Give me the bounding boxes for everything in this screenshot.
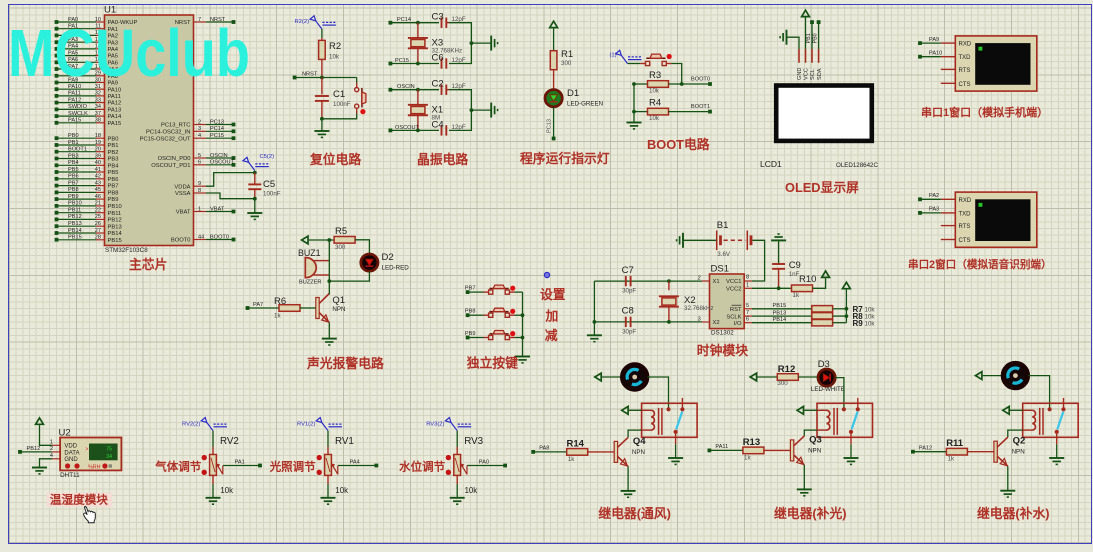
motor M1: [622, 364, 647, 389]
wire relay 1 coil to Q4 collector: [628, 430, 642, 437]
svg-text:GND: GND: [797, 68, 803, 80]
svg-text:TXD: TXD: [959, 211, 972, 217]
ground (RV1): [321, 498, 336, 504]
MCUclub watermark: [8, 16, 250, 91]
svg-text:PB0: PB0: [108, 136, 119, 142]
wire OLED VCC pin: [805, 17, 807, 62]
svg-text:LED-GREEN: LED-GREEN: [567, 100, 603, 107]
svg-text:10k: 10k: [220, 486, 233, 495]
battery B1 3.6V: [683, 220, 751, 258]
svg-text:RV2(2): RV2(2): [182, 422, 200, 428]
pushbutton (key PB9): [484, 331, 516, 340]
chip pin PA2 (pin 12, net PA2): [55, 30, 118, 39]
resistor R9 10k: [812, 319, 876, 328]
svg-text:加: 加: [545, 309, 559, 324]
svg-text:41: 41: [95, 167, 101, 173]
wire PB12 to DHT11 DATA: [20, 451, 60, 453]
svg-text:44: 44: [198, 234, 204, 240]
svg-text:BOOT电路: BOOT电路: [647, 137, 710, 152]
svg-text:Q3: Q3: [809, 434, 822, 445]
capacitor C6 12pF: [432, 53, 466, 69]
capacitor C4 12pF: [432, 119, 466, 135]
label 晶振电路: [417, 152, 468, 167]
svg-text:300: 300: [335, 244, 346, 251]
power symbol (motor 1, rotated left): [595, 373, 601, 381]
terminal PA4: [375, 464, 379, 468]
svg-text:PA11: PA11: [108, 94, 121, 100]
svg-text:VCC2: VCC2: [726, 287, 741, 293]
svg-text:19: 19: [95, 140, 101, 146]
resistor R6 1k: [248, 296, 316, 320]
svg-text:PB10: PB10: [68, 201, 82, 207]
svg-text:VSSA: VSSA: [175, 191, 191, 197]
svg-text:PB6: PB6: [68, 174, 79, 180]
svg-text:R12: R12: [778, 364, 795, 375]
svg-text:PB9: PB9: [108, 197, 119, 203]
terminal BOOT1: [691, 104, 712, 114]
label 程序运行指示灯: [520, 151, 610, 166]
wire C2 to rail: [449, 90, 471, 110]
label 独立按键: [467, 356, 518, 371]
chip pin PB13 (pin 26, net PB13): [55, 221, 122, 230]
resistor R12 300: [757, 364, 798, 387]
svg-text:VBAT: VBAT: [210, 206, 225, 212]
svg-text:OSCIN_PD0: OSCIN_PD0: [158, 156, 191, 162]
svg-text:PA14: PA14: [108, 114, 123, 120]
wire power to motor 1: [602, 376, 622, 378]
svg-text:MCUclub: MCUclub: [8, 16, 250, 91]
svg-text:BOOT1: BOOT1: [68, 147, 87, 153]
terminal PA10: [918, 51, 942, 59]
svg-text:27: 27: [95, 228, 101, 234]
chip pin PA15 (pin 38, net PA15): [55, 118, 122, 127]
svg-text:5: 5: [198, 153, 201, 159]
chip pin PA12 (pin 33, net PA12): [55, 97, 122, 106]
svg-text:SDA: SDA: [817, 68, 823, 80]
DHT11 pin numbers: [50, 439, 53, 459]
svg-text:32.768kHz: 32.768kHz: [684, 305, 714, 312]
svg-text:U1: U1: [104, 5, 116, 16]
wire OSCOUT net: [390, 129, 439, 133]
chip pin PB8 (pin 45, net PB8): [55, 187, 119, 196]
svg-text:PA1: PA1: [235, 459, 245, 465]
wire C3 to rail: [449, 23, 471, 43]
svg-text:PB7: PB7: [108, 184, 119, 190]
svg-text:串口2窗口（模拟语音识别端）: 串口2窗口（模拟语音识别端）: [908, 258, 1052, 271]
ground (keys): [515, 357, 530, 363]
chip pin PA9 (pin 30, net PA9): [55, 77, 118, 86]
svg-text:PB4: PB4: [68, 160, 79, 166]
chip pin PA10 (pin 31, net PA10): [55, 84, 122, 93]
svg-text:PB7: PB7: [465, 286, 476, 292]
svg-text:减: 减: [545, 328, 558, 343]
chip pin PA8 (pin 29, net PA8): [55, 71, 118, 80]
chip pin PB0 (pin 18, net PB0): [55, 133, 119, 142]
svg-text:OLED128642C: OLED128642C: [836, 162, 878, 169]
svg-text:C5(2): C5(2): [260, 154, 275, 160]
capacitor C3 12pF: [432, 12, 466, 28]
wiper of RV1: [331, 463, 338, 474]
chip pin PA4 (pin 14, net PA4): [55, 44, 119, 53]
wire R3-R4 rail: [632, 82, 636, 113]
svg-text:%RH: %RH: [88, 464, 101, 470]
svg-text:PB10: PB10: [108, 204, 122, 210]
svg-text:VCC: VCC: [804, 68, 810, 80]
capacitor C2 12pF: [432, 79, 466, 95]
svg-text:PA11: PA11: [715, 444, 728, 450]
wire PB8 to key: [468, 314, 484, 316]
chip U1 STM32F103C8 body: [104, 5, 194, 255]
svg-text:CTS: CTS: [959, 238, 971, 244]
svg-text:10k: 10k: [335, 486, 348, 495]
svg-text:B1: B1: [717, 220, 729, 231]
svg-text:SCLK: SCLK: [726, 314, 741, 320]
svg-text:NPN: NPN: [632, 449, 645, 456]
svg-text:PC15: PC15: [210, 133, 224, 139]
wire rail to ground (BOOT): [633, 112, 635, 123]
chip pin PA1 (pin 11, net PA1): [55, 24, 118, 33]
svg-text:串口1窗口（模拟手机端）: 串口1窗口（模拟手机端）: [921, 105, 1048, 119]
ground (Q4 emitter): [621, 491, 636, 497]
svg-text:PA7: PA7: [253, 302, 263, 308]
svg-text:37: 37: [95, 111, 101, 117]
chip pin PB10 (pin 21, net PB10): [55, 201, 122, 210]
svg-text:PB8: PB8: [108, 191, 119, 197]
svg-text:PB15: PB15: [108, 238, 122, 244]
wire power to relay 1 coil: [629, 409, 642, 411]
chip pin PB7 (pin 43, net PB7): [55, 180, 119, 189]
wire motor 1 to relay contact: [647, 377, 668, 409]
svg-text:R9: R9: [853, 319, 864, 328]
chip pin PB12 (pin 25, net PB12): [55, 214, 122, 223]
wire NRST node: [295, 76, 357, 80]
terminal PC15: [389, 58, 410, 65]
svg-text:RV1: RV1: [335, 436, 354, 447]
svg-text:R4: R4: [649, 98, 661, 109]
svg-text:D2: D2: [382, 252, 394, 263]
ground (BOOT): [627, 123, 642, 129]
capacitor C8 30pF: [622, 306, 637, 336]
chip pin PB2 (pin 20, net BOOT1): [55, 147, 119, 156]
terminal PB8: [465, 309, 476, 317]
chip pin PA0-WKUP (pin 10, net PA0): [55, 17, 138, 26]
resistor R1 300: [550, 28, 573, 89]
svg-text:DATA: DATA: [64, 450, 79, 456]
virtual terminal body (PA9/PA10): [941, 36, 1037, 91]
label 减: [545, 328, 558, 343]
svg-text:独立按键: 独立按键: [467, 356, 518, 371]
wire RV2 to ground: [212, 484, 214, 498]
transistor Q1 NPN: [316, 294, 346, 323]
svg-text:4: 4: [198, 133, 201, 139]
wire rail to PC15: [449, 41, 473, 63]
svg-text:R2(2): R2(2): [295, 19, 310, 25]
relay RL3: [1023, 398, 1078, 437]
node BOOT0 junction: [680, 82, 708, 86]
label 主芯片: [129, 257, 167, 272]
svg-text:28: 28: [95, 235, 101, 241]
svg-text:SWCLK: SWCLK: [68, 111, 88, 117]
hand cursor: [84, 506, 96, 522]
ground (RV2): [206, 498, 221, 504]
svg-text:SWDIO: SWDIO: [68, 104, 88, 110]
wire relay 3 coil to Q2 collector: [1008, 430, 1023, 437]
transistor Q2 NPN: [994, 436, 1025, 467]
svg-text:VBAT: VBAT: [176, 210, 191, 216]
wire C1 to ground: [321, 119, 323, 131]
svg-text:RV3(2): RV3(2): [426, 422, 444, 428]
svg-text:1k: 1k: [744, 454, 751, 461]
svg-text:3: 3: [198, 126, 201, 132]
svg-text:10k: 10k: [465, 486, 478, 495]
svg-text:10k: 10k: [865, 321, 876, 328]
svg-text:NPN: NPN: [332, 306, 345, 313]
chip pin PA13 (pin 34, net SWDIO): [55, 104, 122, 113]
svg-text:RV1(2): RV1(2): [297, 422, 315, 428]
wire relay 1 switch to ground: [675, 434, 677, 458]
ground (reset): [314, 131, 329, 137]
power symbol (OLED VCC): [802, 10, 810, 16]
svg-text:300: 300: [777, 380, 788, 387]
resistor R10 1k: [792, 274, 817, 299]
pushbutton (key PB7): [484, 285, 516, 294]
wire OSCIN net: [390, 88, 439, 92]
power symbol (DHT11): [36, 418, 44, 424]
svg-text:42: 42: [95, 174, 101, 180]
power symbol (relay 1 coil, rotated left): [622, 406, 628, 414]
wire wiper to PA0: [467, 459, 505, 465]
svg-text:PA3: PA3: [929, 207, 939, 213]
wire PB9 to key: [468, 337, 484, 339]
svg-text:300: 300: [561, 60, 572, 67]
chip pin PA6 (pin 16, net PA6): [55, 57, 118, 66]
svg-text:PB9: PB9: [465, 331, 476, 337]
svg-text:PA15: PA15: [68, 118, 81, 124]
capacitor C7 30pF: [622, 265, 637, 295]
svg-text:PB5: PB5: [68, 167, 79, 173]
power symbol (D1): [550, 21, 558, 27]
wire D3 to relay contact: [835, 378, 844, 410]
svg-text:U2: U2: [59, 428, 71, 439]
svg-text:10k: 10k: [649, 115, 660, 122]
label 时钟模块: [697, 343, 748, 358]
svg-text:2: 2: [198, 119, 201, 125]
resistor R7 10k: [812, 305, 876, 314]
svg-text:1nF: 1nF: [789, 271, 800, 278]
wire D2 to collector node: [329, 271, 369, 281]
wire keys rail: [521, 292, 525, 356]
wire Q2 emitter to ground: [1007, 466, 1009, 491]
relay RL2: [817, 398, 873, 437]
svg-text:D1: D1: [567, 88, 579, 99]
svg-text:PA13: PA13: [108, 108, 122, 114]
wire PB7 to key: [468, 291, 484, 293]
svg-text:38: 38: [95, 118, 101, 124]
wire relay 3 switch to ground: [1056, 434, 1058, 458]
svg-text:RTS: RTS: [959, 224, 971, 230]
label 继电器(补水): [977, 506, 1050, 521]
pushbutton (BOOT): [628, 54, 672, 66]
svg-text:75: 75: [106, 447, 112, 453]
svg-text:30pF: 30pF: [622, 288, 636, 295]
svg-text:气体调节: 气体调节: [154, 460, 201, 474]
terminal PA11: [708, 444, 729, 452]
svg-text:6: 6: [746, 317, 749, 323]
label 继电器(通风): [598, 506, 671, 521]
wire PC14 net: [390, 21, 439, 25]
svg-text:PB3: PB3: [108, 157, 119, 163]
label OLED显示屏: [785, 180, 859, 195]
svg-text:25: 25: [95, 214, 101, 220]
wire R5 to D2: [355, 240, 369, 254]
wire key PB7 to rail: [515, 291, 523, 293]
svg-text:RV3: RV3: [464, 436, 483, 447]
svg-text:PC14-OSC32_IN: PC14-OSC32_IN: [146, 129, 190, 135]
wire motor 3 to relay contact: [1028, 376, 1050, 410]
ground (C5): [247, 213, 262, 219]
terminal PA1: [258, 464, 262, 468]
ground (buzzer): [322, 339, 337, 345]
chip pin PB14 (pin 27, net PB14): [55, 228, 123, 237]
svg-text:晶振电路: 晶振电路: [417, 152, 468, 167]
ground (clock rail): [587, 335, 602, 341]
svg-text:PB12: PB12: [68, 214, 82, 220]
svg-text:PB8: PB8: [68, 187, 79, 193]
power symbol (buzzer, rotated left): [302, 236, 308, 244]
ground (C9, inverted): [771, 234, 786, 240]
svg-text:22: 22: [95, 208, 101, 214]
pushbutton (key PB8): [484, 308, 516, 317]
chip pin PB5 (pin 41, net PB5): [55, 167, 119, 176]
wire label flag RV3(2): [426, 418, 471, 431]
svg-text:OSCOUT: OSCOUT: [210, 160, 235, 166]
svg-text:R11: R11: [946, 438, 964, 449]
ground (relay 2 switch): [844, 458, 859, 464]
potentiometer RV1 10k: [317, 431, 354, 495]
chip pin PB9 (pin 46, net PB9): [55, 194, 119, 203]
label 光照调节: [269, 460, 316, 474]
svg-text:C5: C5: [263, 179, 275, 190]
chip pin PA7 (pin 17, net PA7): [55, 64, 118, 73]
resistor R8 10k: [812, 312, 876, 321]
svg-text:33: 33: [95, 97, 101, 103]
terminal PB7: [465, 286, 476, 294]
svg-text:OSCOUT_PD1: OSCOUT_PD1: [151, 163, 190, 169]
terminal PC13 (D1): [552, 137, 556, 141]
LED D1 LED-GREEN: [545, 88, 603, 107]
svg-text:R6: R6: [274, 296, 286, 307]
svg-text:46: 46: [95, 194, 101, 200]
svg-text:PB14: PB14: [108, 231, 123, 237]
svg-text:OSCIN: OSCIN: [210, 153, 228, 159]
terminal PB0 (OLED SDA): [812, 20, 820, 63]
svg-text:PB1: PB1: [108, 143, 119, 149]
terminal OSCOUT: [389, 125, 420, 132]
svg-text:OLED显示屏: OLED显示屏: [785, 180, 859, 195]
svg-text:继电器(补光): 继电器(补光): [774, 506, 847, 521]
wire clock left rail: [593, 281, 595, 335]
svg-text:SCL: SCL: [810, 69, 816, 80]
LED D3 LED-WHITE: [798, 359, 845, 393]
power symbol (D3 chain, rotated left): [750, 373, 756, 381]
svg-text:21: 21: [95, 201, 101, 207]
wire power to motor 3: [983, 375, 1003, 377]
terminal BOOT0: [691, 77, 712, 86]
chip pin PC14-OSC32_IN (pin 3, net PC14): [146, 126, 235, 135]
svg-text:PB8: PB8: [465, 309, 476, 315]
svg-text:GND: GND: [64, 457, 78, 463]
label 继电器(补光): [774, 506, 847, 521]
svg-text:VCC1: VCC1: [726, 279, 741, 285]
wire power to DHT11 VDD: [40, 425, 61, 445]
OLED pin name labels: [797, 68, 823, 80]
pushbutton (reset): [320, 78, 366, 121]
svg-text:PA2: PA2: [929, 193, 939, 199]
svg-text:PB13: PB13: [68, 221, 82, 227]
svg-text:PB9: PB9: [68, 194, 79, 200]
label 设置: [540, 287, 566, 302]
wire rail to OSCOUT: [449, 108, 473, 130]
virtual terminal body (PA2/PA3): [941, 192, 1037, 247]
svg-text:CTS: CTS: [959, 82, 971, 88]
crystal X2 32.768kHz: [659, 281, 714, 322]
svg-text:BOOT0: BOOT0: [210, 234, 229, 240]
svg-text:TXD: TXD: [959, 55, 972, 61]
power symbol (R7-R9): [843, 282, 851, 288]
svg-text:X1: X1: [713, 279, 720, 285]
wires DS1302 RST/SCLK/IO to resistor pack: [752, 303, 812, 323]
motor M3: [1003, 363, 1028, 388]
svg-text:水位调节: 水位调节: [399, 460, 445, 474]
ground (battery, rotated left): [677, 233, 683, 248]
svg-text:30pF: 30pF: [622, 329, 636, 336]
svg-text:1: 1: [746, 282, 749, 288]
resistor R14 1k: [533, 438, 614, 463]
svg-text:PA12: PA12: [68, 97, 81, 103]
svg-text:复位电路: 复位电路: [309, 152, 361, 167]
buzzer BUZ1: [298, 248, 329, 285]
wire relay 2 switch to ground: [850, 434, 852, 458]
ground (RV3): [450, 498, 465, 504]
power symbol (motor 3, rotated left): [976, 372, 982, 380]
wire rail to ground (X3): [471, 42, 491, 44]
svg-text:100nF: 100nF: [333, 101, 351, 108]
svg-text:NPN: NPN: [1012, 449, 1025, 456]
chip pin PC15-OSC32_OUT (pin 4, net PC15): [140, 133, 236, 142]
LED D2 LED-RED: [361, 252, 409, 271]
svg-text:DHT11: DHT11: [60, 472, 80, 479]
terminal PA2: [918, 193, 941, 201]
ground (Q2 emitter): [1000, 491, 1015, 497]
capacitor C1 100nF: [315, 78, 351, 119]
wire resistor pack rail to power: [833, 290, 849, 323]
svg-text:LED-RED: LED-RED: [382, 264, 410, 271]
svg-text:R1: R1: [561, 49, 573, 60]
svg-text:5: 5: [746, 303, 749, 309]
chip pin PB11 (pin 22, net PB11): [55, 208, 122, 217]
wire C5 to ground: [254, 199, 256, 213]
chip pin PA5 (pin 15, net PA5): [55, 50, 118, 59]
svg-text:程序运行指示灯: 程序运行指示灯: [520, 151, 610, 166]
svg-text:Q2: Q2: [1013, 436, 1026, 447]
svg-text:PB11: PB11: [108, 211, 122, 217]
svg-text:PA12: PA12: [108, 101, 122, 107]
chip pin PB1 (pin 19, net PB1): [55, 140, 119, 149]
svg-text:R14: R14: [567, 438, 585, 449]
svg-text:NPN: NPN: [808, 447, 821, 454]
svg-text:PB6: PB6: [108, 177, 119, 183]
terminal PA9: [918, 37, 941, 45]
